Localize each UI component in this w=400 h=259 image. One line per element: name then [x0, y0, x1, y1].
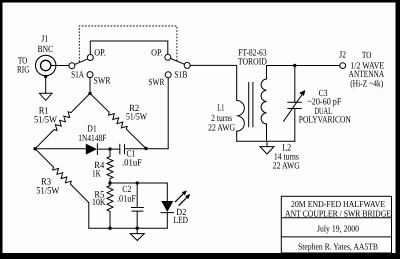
junction dot R2 bottom	[144, 147, 147, 150]
wire S1A OP riser	[89, 41, 91, 55]
svg-text:SWR: SWR	[94, 76, 112, 86]
transformer core	[249, 82, 253, 127]
svg-text:22 AWG: 22 AWG	[273, 162, 300, 172]
wire S1B OP riser	[167, 41, 169, 54]
wire C1 to right node	[125, 148, 169, 150]
switch S1B SWR contact	[165, 72, 171, 78]
switch S1A OP contact	[87, 55, 93, 61]
svg-text:L1: L1	[217, 103, 224, 113]
svg-text:OP.: OP.	[94, 49, 106, 59]
diode D1	[86, 144, 98, 155]
resistor R5	[107, 183, 113, 228]
svg-text:S1A: S1A	[71, 70, 84, 80]
svg-text:BNC: BNC	[38, 45, 54, 55]
node R4/R5	[108, 181, 111, 184]
wire C2 top lead	[136, 183, 138, 208]
node bridge left	[33, 147, 36, 150]
capacitor C2	[131, 208, 143, 212]
svg-text:S1B: S1B	[174, 71, 187, 81]
switch S1B common contact	[184, 62, 190, 68]
svg-text:1K: 1K	[92, 170, 101, 180]
svg-text:51/5W: 51/5W	[34, 116, 57, 126]
title text	[285, 199, 391, 252]
capacitor C3 arrow	[284, 90, 306, 121]
svg-text:.01uF: .01uF	[122, 158, 142, 168]
switch S1A wiper	[75, 59, 88, 64]
title block	[281, 196, 391, 253]
svg-text:July 19, 2000: July 19, 2000	[317, 224, 359, 234]
wire R3 to bottom rail	[88, 203, 90, 229]
node bridge top	[88, 92, 91, 95]
wire transformer bottom rail	[237, 140, 295, 142]
resistor R1	[35, 93, 90, 148]
resistor R3	[35, 149, 89, 203]
svg-text:RIG: RIG	[17, 66, 30, 76]
svg-text:22 AWG: 22 AWG	[208, 124, 235, 134]
ground (below J1)	[39, 93, 52, 100]
capacitor C1	[120, 144, 125, 154]
mechanical link dotted line	[79, 26, 177, 62]
svg-text:J2: J2	[339, 50, 346, 60]
junction dot C3 top	[293, 64, 296, 67]
junction dot rail R5	[108, 227, 111, 230]
junction dot D1/R4	[108, 147, 111, 150]
wire OP link S1A to S1B	[90, 40, 168, 42]
svg-text:OP.: OP.	[151, 49, 163, 59]
resistor R4	[107, 149, 113, 183]
svg-text:(Hi-Z ~4k): (Hi-Z ~4k)	[350, 79, 383, 89]
wire meter rail	[110, 182, 167, 184]
wire primary bottom	[236, 131, 238, 141]
capacitor C3 leads	[288, 66, 302, 142]
ground (transformer)	[260, 141, 274, 154]
transformer T1 secondary L2	[261, 79, 266, 124]
label TO 1/2 WAVE ANTENNA (Hi-Z ~4k)	[349, 51, 385, 89]
LED D2 arrows	[175, 190, 190, 205]
svg-text:POLYVARICON: POLYVARICON	[299, 116, 351, 126]
LED D2	[161, 201, 174, 228]
svg-text:1N4148F: 1N4148F	[78, 134, 106, 144]
svg-text:51/5W: 51/5W	[126, 112, 147, 122]
switch S1B OP contact	[165, 54, 171, 60]
svg-text:Stephen R. Yates, AA5TB: Stephen R. Yates, AA5TB	[298, 242, 378, 252]
wire D1 to C1	[97, 148, 119, 150]
svg-text:TOROID: TOROID	[238, 58, 267, 68]
switch S1A common contact	[69, 63, 75, 69]
svg-text:.01uF: .01uF	[117, 195, 136, 205]
switch S1B wiper	[171, 59, 185, 65]
ground (bridge bottom)	[130, 228, 144, 240]
junction dot rail ground	[136, 227, 139, 230]
svg-text:D1: D1	[87, 125, 97, 135]
wire BNC to S1A common	[51, 65, 69, 67]
wire secondary top	[267, 66, 295, 80]
svg-text:LED: LED	[174, 216, 189, 226]
wire secondary bottom	[266, 124, 268, 141]
svg-text:51/5W: 51/5W	[36, 187, 59, 197]
svg-text:J1: J1	[41, 35, 48, 45]
svg-text:SWR: SWR	[148, 78, 165, 88]
wire C2 bottom lead	[136, 211, 138, 228]
junction dot BNC ground stem	[44, 75, 47, 78]
connector J1 BNC	[36, 55, 56, 75]
switch S1A SWR contact	[87, 72, 93, 78]
wire left node to D1	[35, 148, 86, 150]
wire S1B SWR down to right node	[167, 78, 169, 149]
wire D2 top lead	[166, 183, 168, 201]
wire S1B common to transformer	[190, 65, 237, 100]
svg-text:10K: 10K	[92, 198, 106, 208]
svg-text:ANT COUPLER / SWR BRIDGE: ANT COUPLER / SWR BRIDGE	[285, 208, 391, 218]
wire BNC to ground	[45, 75, 47, 93]
wire bottom rail	[89, 227, 168, 229]
junction dot C2 top	[136, 181, 139, 184]
connector J2	[340, 63, 346, 69]
svg-text:2 turns: 2 turns	[211, 114, 232, 124]
resistor R2	[90, 93, 146, 148]
wire to J2	[295, 65, 340, 67]
wire S1A SWR to bridge top node	[89, 78, 91, 94]
transformer T1 primary L1	[237, 101, 245, 132]
svg-text:TO: TO	[362, 51, 372, 61]
